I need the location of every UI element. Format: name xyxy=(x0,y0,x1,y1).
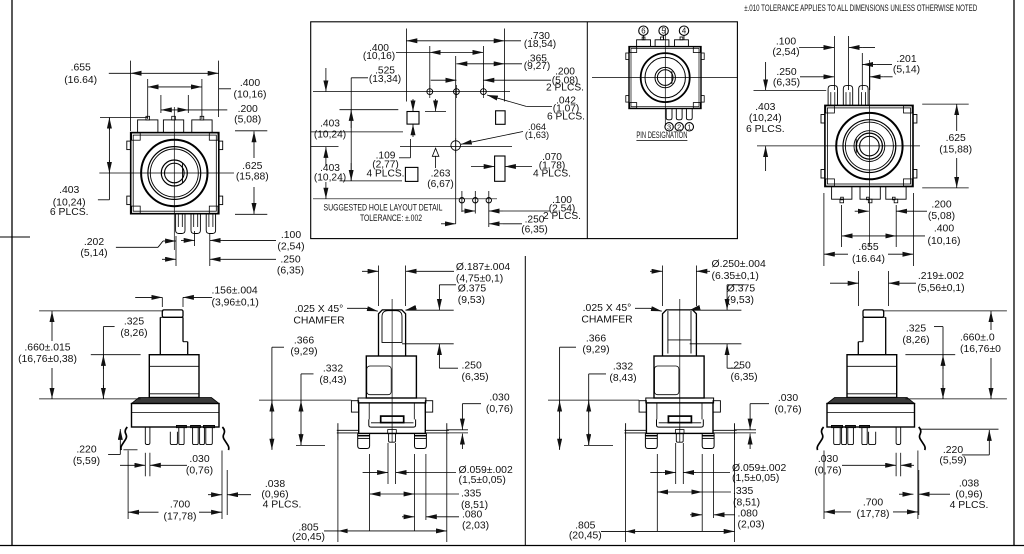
hole layout box divider xyxy=(586,22,588,239)
svg-text:±.010 TOLERANCE APPLIES TO ALL: ±.010 TOLERANCE APPLIES TO ALL DIMENSION… xyxy=(744,3,977,13)
side view 2 centerline xyxy=(391,299,393,443)
dimension .202 (5,14) pin offset xyxy=(80,237,176,259)
svg-text:.030: .030 xyxy=(818,454,838,465)
svg-text:.219±.002: .219±.002 xyxy=(918,271,964,282)
svg-text:1: 1 xyxy=(687,123,691,132)
svg-text:TOLERANCE: ±.002: TOLERANCE: ±.002 xyxy=(360,213,422,223)
svg-text:(8,51): (8,51) xyxy=(733,497,760,508)
encoder top view (top-left) xyxy=(127,116,223,233)
svg-text:(8,26): (8,26) xyxy=(120,328,147,339)
dimension .250 (6,35) bottom holes xyxy=(441,215,548,236)
dimension .042 (1,07) 6 PLCS pin holes xyxy=(487,95,585,123)
dimension .250 (6,35) knurl length view2 xyxy=(402,344,489,383)
svg-text:6: 6 xyxy=(641,27,645,36)
svg-text:(5,59): (5,59) xyxy=(73,456,100,467)
svg-text:(8,43): (8,43) xyxy=(319,375,346,386)
svg-text:.655: .655 xyxy=(858,242,878,253)
top-right extra ring and flat chord xyxy=(854,131,885,162)
svg-text:.080: .080 xyxy=(738,509,758,520)
bottom section divider line xyxy=(524,256,526,546)
svg-text:(20,45): (20,45) xyxy=(292,532,325,543)
mounting slot lower-right xyxy=(495,156,505,181)
svg-text:.700: .700 xyxy=(863,498,883,509)
dimension .200 (5,08) tab pitch xyxy=(161,95,261,125)
dimension .400 (10,16) tab span xyxy=(148,78,267,119)
svg-text:.200: .200 xyxy=(931,200,951,211)
svg-text:.220: .220 xyxy=(76,445,96,456)
svg-text:(6,35): (6,35) xyxy=(277,266,304,277)
mounting slot upper-right xyxy=(496,111,506,125)
svg-text:.660±.015: .660±.015 xyxy=(24,343,70,354)
pin 6 label xyxy=(639,26,648,40)
svg-text:.030: .030 xyxy=(778,393,798,404)
dimension .059 (1,5) center pin dia view2 xyxy=(363,443,513,486)
svg-text:(0,76): (0,76) xyxy=(486,404,513,415)
svg-text:(2,54): (2,54) xyxy=(277,241,304,252)
svg-text:.263: .263 xyxy=(431,168,451,179)
svg-text:.700: .700 xyxy=(170,500,190,511)
svg-text:(10,16): (10,16) xyxy=(234,90,267,101)
svg-text:4 PLCS.: 4 PLCS. xyxy=(367,169,405,180)
hole layout caption xyxy=(324,203,443,223)
dimension .403 (10,24) hole layout upper xyxy=(311,68,403,166)
pin 1 label xyxy=(685,123,693,132)
svg-text:(16.64): (16.64) xyxy=(852,254,885,265)
dimension .100 (2,54) pin pitch xyxy=(181,230,305,252)
dimension .030 (0,76) pin thickness view1 xyxy=(120,453,213,477)
dimension .700 (17,78) base width view1 xyxy=(128,451,222,523)
dimension .219 (5,56) flat width xyxy=(830,271,965,306)
dimension .200 (5,08) 2 PLCS xyxy=(431,67,584,94)
chamfer note view3 xyxy=(581,303,698,326)
pin 3 label xyxy=(665,123,673,132)
dimension .625 (15,88) top-right height xyxy=(922,104,972,188)
svg-text:.400: .400 xyxy=(240,78,260,89)
svg-text:PIN DESIGNATION: PIN DESIGNATION xyxy=(636,130,687,140)
dimension .201 (5,14) xyxy=(862,54,920,76)
dimension .187 (4,75) shaft dia view2 xyxy=(362,262,510,306)
svg-text:(10,24): (10,24) xyxy=(314,129,346,140)
dimension .156 (3,96) shaft tip dia xyxy=(135,286,259,309)
svg-text:(5,56±0,1): (5,56±0,1) xyxy=(917,283,964,294)
hole layout vertical extension V1 xyxy=(405,29,407,102)
svg-text:(9,53): (9,53) xyxy=(458,295,485,306)
svg-text:.250: .250 xyxy=(280,254,300,265)
dimension .080 (2,03) foot width view2 xyxy=(402,454,489,532)
svg-text:.025 X 45°: .025 X 45° xyxy=(583,303,632,314)
dimension .660 (16,76) view4 xyxy=(883,311,1007,399)
dimension .038 (0,96) 4 PLCS view4 xyxy=(899,470,988,515)
svg-text:5: 5 xyxy=(661,27,666,36)
svg-text:(0,76): (0,76) xyxy=(774,404,801,415)
svg-text:(2,54): (2,54) xyxy=(772,47,799,58)
pin 4 label xyxy=(679,26,688,40)
side view 3 encoder base xyxy=(625,356,737,449)
dimension .655 (16.64) top-right width xyxy=(824,193,914,266)
svg-text:(10,24): (10,24) xyxy=(749,113,782,124)
side view 3 flat shaft xyxy=(663,310,697,356)
svg-text:.202: .202 xyxy=(84,237,104,248)
svg-text:(6,35): (6,35) xyxy=(521,225,548,236)
border frame bottom line xyxy=(0,545,1024,547)
svg-text:.201: .201 xyxy=(896,54,916,65)
general tolerance note xyxy=(744,3,977,13)
dimension .700 (17,78) view4 xyxy=(824,451,918,521)
dimension .366 (9,29) view3 xyxy=(560,333,610,450)
dimension .030 (0,76) wing thickness view2 xyxy=(447,393,513,450)
svg-text:.025 X 45°: .025 X 45° xyxy=(295,304,344,315)
dimension .403 (10,24) hole layout lower xyxy=(311,146,346,198)
svg-text:.335: .335 xyxy=(733,486,753,497)
svg-text:(1,5±0,05): (1,5±0,05) xyxy=(732,473,779,484)
svg-text:.100: .100 xyxy=(776,36,796,47)
dimension .070 (1,78) 4 PLCS slot width xyxy=(471,152,571,180)
top view shaft flat chord xyxy=(182,163,184,183)
svg-text:(15,88): (15,88) xyxy=(236,172,269,183)
dimension .325 (8,26) bushing height view1 xyxy=(91,317,148,399)
svg-text:(0,96): (0,96) xyxy=(955,489,982,500)
dimension .250 (6,35) flat length view3 xyxy=(690,344,758,383)
dimension .059 (1,5) center pin dia view3 xyxy=(650,443,786,484)
svg-text:.403: .403 xyxy=(755,102,775,113)
svg-text:6 PLCS.: 6 PLCS. xyxy=(746,124,785,135)
dimension .250 (6,35) pin span xyxy=(162,231,304,277)
svg-text:.625: .625 xyxy=(242,161,262,172)
dimension .400 (10,16) top-right tab span xyxy=(842,224,961,247)
top-right view centerlines xyxy=(757,60,920,247)
svg-text:(6,35): (6,35) xyxy=(462,372,489,383)
svg-text:6 PLCS.: 6 PLCS. xyxy=(50,207,89,218)
dimension .366 (9,29) view2 xyxy=(272,335,318,450)
svg-text:.625: .625 xyxy=(946,133,966,144)
svg-text:.325: .325 xyxy=(906,323,926,334)
svg-text:4 PLCS.: 4 PLCS. xyxy=(533,169,571,180)
svg-text:.030: .030 xyxy=(189,454,209,465)
svg-text:.332: .332 xyxy=(323,363,343,374)
top pin holes row xyxy=(427,85,486,98)
dimension .655 (16.64) top view width xyxy=(64,61,218,131)
svg-text:.400: .400 xyxy=(934,224,954,235)
svg-text:.030: .030 xyxy=(489,393,509,404)
hole layout centerline A xyxy=(313,91,510,93)
hole layout vertical extension V3 xyxy=(429,46,431,92)
svg-text:CHAMFER: CHAMFER xyxy=(581,314,633,325)
svg-text:.038: .038 xyxy=(959,479,979,490)
dimension .250 (6.35) shaft dia view3 xyxy=(650,259,766,306)
hole layout vertical extension V4 xyxy=(482,46,484,92)
center shaft hole xyxy=(451,138,461,153)
svg-text:.366: .366 xyxy=(586,333,606,344)
svg-text:(1,5±0,05): (1,5±0,05) xyxy=(459,475,506,486)
dimension .525 (13,34) xyxy=(340,66,403,181)
pin 5 label xyxy=(659,26,668,40)
dimension .335 (8,51) view2 xyxy=(370,454,489,531)
svg-text:.250: .250 xyxy=(731,361,751,372)
svg-text:(5,08): (5,08) xyxy=(234,114,261,125)
dimension .375 (9,53) bushing dia view3 xyxy=(693,283,755,310)
svg-text:4: 4 xyxy=(682,27,687,36)
encoder top view (top-right, rotated) xyxy=(821,86,917,203)
svg-text:(10,24): (10,24) xyxy=(314,173,346,184)
side view 2 encoder base xyxy=(337,356,449,449)
svg-text:(0,76): (0,76) xyxy=(186,465,213,476)
side view 3 centerline xyxy=(679,299,681,443)
hole layout vertical extension V2 xyxy=(504,29,506,102)
svg-text:(5,08): (5,08) xyxy=(928,211,955,222)
dimension .220 (5,59) leg length view1 xyxy=(73,429,138,467)
svg-text:.403: .403 xyxy=(320,119,340,130)
top view centerlines xyxy=(99,107,234,250)
svg-text:(17,78): (17,78) xyxy=(857,509,890,520)
dimension .030 (0,76) view4 xyxy=(814,453,914,477)
dimension .403 (10,24) 6 PLCS left xyxy=(50,118,148,219)
side view 4 encoder body (mirrored) xyxy=(817,310,925,450)
svg-text:4 PLCS.: 4 PLCS. xyxy=(263,500,302,511)
bottom pin holes row xyxy=(459,191,491,227)
chamfer note view2 xyxy=(293,304,414,327)
svg-text:(8,43): (8,43) xyxy=(609,373,636,384)
svg-text:Ø.250±.004: Ø.250±.004 xyxy=(712,259,766,270)
hole layout centerline C xyxy=(313,198,497,200)
mounting slot upper-left xyxy=(407,112,419,125)
dimension .403 (10,24) 6 PLCS top-right xyxy=(746,62,826,171)
svg-text:2 PLCS.: 2 PLCS. xyxy=(543,211,581,222)
svg-text:2 PLCS.: 2 PLCS. xyxy=(546,82,584,93)
svg-text:.335: .335 xyxy=(461,489,481,500)
svg-text:(0,76): (0,76) xyxy=(814,465,841,476)
pin designation centerlines xyxy=(592,28,737,126)
border frame right line xyxy=(1013,0,1015,546)
side view 1 encoder body xyxy=(121,310,229,450)
svg-text:.655: .655 xyxy=(71,63,91,74)
dimension .375 (9,53) bushing dia view2 xyxy=(406,283,487,310)
dimension .332 (8,43) view2 xyxy=(259,363,351,445)
dimension .220 (5,59) view4 xyxy=(920,429,999,466)
svg-text:.325: .325 xyxy=(124,317,144,328)
border center tick xyxy=(0,236,30,238)
dimension .660 (16,76) overall height xyxy=(18,311,163,399)
svg-text:(6.35±0,1): (6.35±0,1) xyxy=(712,271,759,282)
dimension .400 (10,16) hole layout xyxy=(363,43,484,62)
svg-text:(9,27): (9,27) xyxy=(524,61,551,72)
svg-text:(5,59): (5,59) xyxy=(939,456,966,467)
svg-text:.156±.004: .156±.004 xyxy=(212,286,258,297)
dimension .263 (6,67) open arrow xyxy=(425,99,454,190)
hole layout centerline B xyxy=(400,146,512,148)
svg-text:(5,14): (5,14) xyxy=(80,248,107,259)
svg-text:(18,54): (18,54) xyxy=(524,39,556,50)
svg-text:(20,45): (20,45) xyxy=(569,531,602,542)
svg-text:(15,88): (15,88) xyxy=(939,145,972,156)
svg-text:.332: .332 xyxy=(613,361,633,372)
top-right tab notches xyxy=(841,197,895,200)
svg-text:(6,67): (6,67) xyxy=(427,179,454,190)
svg-text:CHAMFER: CHAMFER xyxy=(293,315,345,326)
svg-text:(10,16): (10,16) xyxy=(928,236,961,247)
svg-text:SUGGESTED HOLE LAYOUT DETAIL: SUGGESTED HOLE LAYOUT DETAIL xyxy=(324,203,443,213)
svg-text:(1,63): (1,63) xyxy=(525,130,549,140)
svg-text:.250: .250 xyxy=(462,361,482,372)
svg-text:(17,78): (17,78) xyxy=(164,512,197,523)
svg-text:6 PLCS.: 6 PLCS. xyxy=(547,112,585,123)
dimension .030 (0,76) wing thickness view3 xyxy=(735,393,802,449)
svg-text:.080: .080 xyxy=(462,510,482,521)
dimension .332 (8,43) view3 xyxy=(548,361,639,445)
dimension .805 (20,45) overall width view2 xyxy=(292,441,447,543)
dimension .100 (2,54) top-right pin pitch xyxy=(772,36,875,90)
svg-text:4 PLCS.: 4 PLCS. xyxy=(950,500,989,511)
pin designation view body xyxy=(626,37,704,120)
svg-text:(2,03): (2,03) xyxy=(738,520,765,531)
dimension .625 (15,88) top view height xyxy=(235,131,269,215)
dimension .200 (5,08) top-right tab pitch xyxy=(842,200,955,248)
dimension .365 (9,27) xyxy=(456,54,550,73)
dimension .805 (20,45) overall width view3 xyxy=(569,441,735,542)
svg-text:.366: .366 xyxy=(294,335,314,346)
svg-text:.250: .250 xyxy=(776,67,796,78)
dimension .109 (2,77) 4 PLCS slots xyxy=(367,99,413,180)
hole layout vertical center extension V5 xyxy=(455,56,457,224)
svg-text:(3,96±0,1): (3,96±0,1) xyxy=(212,297,259,308)
side view 2 knurled shaft xyxy=(379,310,406,356)
svg-text:(13,34): (13,34) xyxy=(369,74,401,85)
dimension .038 (0,96) 4 PLCS leg thickness view1 xyxy=(208,470,301,515)
dimension .325 (8,26) view4 xyxy=(902,323,955,399)
dimension .100 (2,54) 2 PLCS bottom holes xyxy=(462,195,581,222)
svg-text:(10,16): (10,16) xyxy=(363,51,395,62)
border frame left line xyxy=(11,0,13,546)
dimension .730 (18,54) xyxy=(406,31,556,50)
svg-text:(16,76±0,38): (16,76±0,38) xyxy=(18,354,77,365)
svg-text:(8,26): (8,26) xyxy=(902,335,929,346)
dimension .250 (6,35) top-right pin span xyxy=(773,65,893,91)
svg-text:(5,14): (5,14) xyxy=(893,65,920,76)
svg-text:Ø.375: Ø.375 xyxy=(458,283,487,294)
svg-text:(16,76±0: (16,76±0 xyxy=(960,344,1001,355)
svg-text:.660±.0: .660±.0 xyxy=(960,332,995,343)
svg-text:.100: .100 xyxy=(281,230,301,241)
svg-text:.403: .403 xyxy=(59,185,79,196)
pin 2 label xyxy=(675,123,683,132)
svg-text:Ø.187±.004: Ø.187±.004 xyxy=(456,262,510,273)
dimension .335 (8,51) view3 xyxy=(657,454,760,531)
svg-text:(2,03): (2,03) xyxy=(462,521,489,532)
suggested hole layout detail box xyxy=(311,22,738,239)
dimension .080 (2,03) foot width view3 xyxy=(690,454,765,531)
svg-text:(6,35): (6,35) xyxy=(773,77,800,88)
svg-text:(16.64): (16.64) xyxy=(64,75,97,86)
svg-text:(6,35): (6,35) xyxy=(731,372,758,383)
svg-text:(9,29): (9,29) xyxy=(582,345,609,356)
dimension .064 (1,63) center hole xyxy=(461,122,549,144)
pin designation title xyxy=(636,130,687,140)
mounting slot lower-left xyxy=(405,167,418,181)
svg-text:.038: .038 xyxy=(265,479,285,490)
svg-text:(9,29): (9,29) xyxy=(290,347,317,358)
svg-text:(9,53): (9,53) xyxy=(727,295,754,306)
